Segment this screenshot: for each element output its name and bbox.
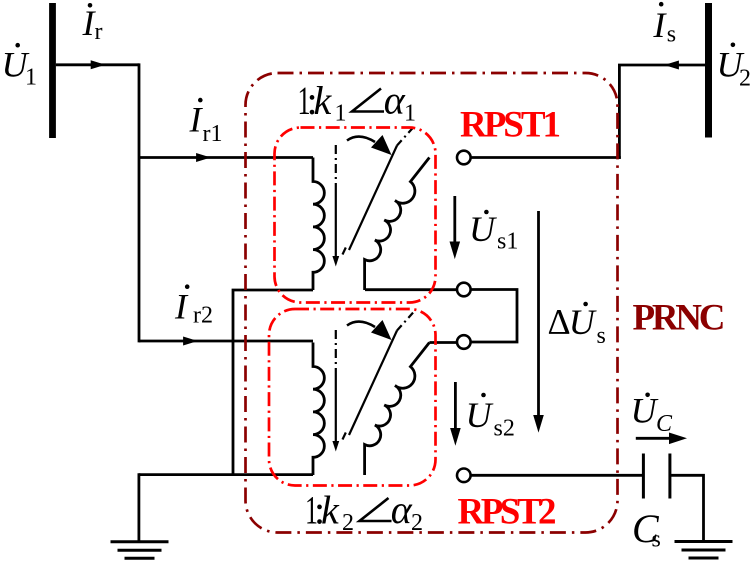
capacitor Cs <box>642 454 645 499</box>
svg-text:r: r <box>95 19 103 45</box>
svg-text:r1: r1 <box>203 121 223 147</box>
wire RPST1 top output <box>470 156 621 159</box>
box RPST2 <box>269 309 436 486</box>
svg-text:RPST2: RPST2 <box>458 492 557 533</box>
svg-text:α: α <box>384 78 406 123</box>
wire ground rail <box>139 473 313 476</box>
svg-text:PRNC: PRNC <box>633 298 726 339</box>
wire series bracket <box>471 290 518 343</box>
wire Is vertical <box>618 65 621 159</box>
ground right <box>675 542 733 559</box>
svg-text:r2: r2 <box>193 302 213 328</box>
box RPST1 <box>275 128 436 303</box>
svg-text:s2: s2 <box>494 416 515 442</box>
svg-text:k: k <box>321 487 340 532</box>
arrow UC <box>636 437 670 440</box>
svg-text:U: U <box>569 302 597 342</box>
node terminal 3 <box>457 335 471 349</box>
svg-text:1: 1 <box>404 101 416 127</box>
svg-text:U: U <box>631 391 659 431</box>
svg-text:1: 1 <box>25 65 37 91</box>
node terminal 1 <box>457 151 471 165</box>
svg-text:2: 2 <box>411 510 423 536</box>
svg-text:2: 2 <box>342 510 354 536</box>
box PRNC <box>246 73 618 533</box>
wire RPST2 top output <box>429 341 457 344</box>
wire ground stem <box>137 473 140 541</box>
svg-text:k: k <box>314 78 333 123</box>
svg-text:α: α <box>391 487 413 532</box>
svg-text:s1: s1 <box>497 229 518 255</box>
svg-text:2: 2 <box>739 66 751 92</box>
svg-text:RPST1: RPST1 <box>460 105 561 146</box>
svg-text:I: I <box>652 5 667 45</box>
svg-text:s: s <box>652 527 661 553</box>
bus U2 <box>705 3 712 138</box>
wire RPST2 bottom output <box>471 474 642 477</box>
svg-text:1: 1 <box>335 101 347 127</box>
node terminal 4 <box>457 469 471 483</box>
svg-text:I: I <box>174 286 189 326</box>
svg-text:s: s <box>667 22 676 48</box>
transformer RPST1 internals <box>313 126 429 290</box>
wire RPST1 bottom left <box>233 290 313 476</box>
arrow Us1 <box>453 196 456 244</box>
wire Ir1 <box>139 156 313 159</box>
wire Is horizontal <box>618 64 705 67</box>
svg-text:U: U <box>469 209 497 249</box>
svg-text:I: I <box>189 100 204 140</box>
arrow Us2 <box>454 382 457 430</box>
wire left riser <box>138 63 141 342</box>
transformer RPST2 internals <box>313 311 429 475</box>
wire RPST1 bottom output <box>365 288 457 291</box>
bus U1 <box>49 3 56 138</box>
svg-text:s: s <box>597 323 606 349</box>
node terminal 2 <box>457 283 471 297</box>
svg-text:Δ: Δ <box>548 302 571 342</box>
wire Ir2 <box>139 340 313 343</box>
ground left <box>111 542 169 559</box>
wire capacitor to ground <box>671 475 704 541</box>
arrow dUs <box>537 211 540 417</box>
wire Ir <box>56 63 139 66</box>
svg-text:U: U <box>466 395 494 435</box>
